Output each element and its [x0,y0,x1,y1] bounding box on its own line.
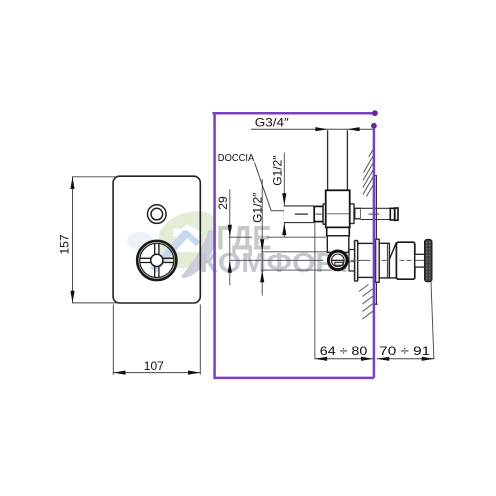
rear main cylinder [396,242,414,279]
wall ring [376,239,380,282]
rear section inner line [386,243,388,278]
centerline dash shower pipe [295,213,308,215]
rear section A [379,243,389,278]
dim G3/4 arrows [315,127,327,131]
shower pipe fitting [314,206,323,221]
DOCCIA leader line [255,163,303,211]
valve body skirt [327,227,350,235]
flange plate [355,241,358,282]
dim G1/2 upper arrows [282,193,286,205]
wall line lower [373,282,378,304]
logo white chimney [174,228,180,237]
link box [349,250,355,272]
right pipe end ring 2 [395,208,398,220]
wheel outer ring [137,241,176,280]
side view [216,116,434,361]
knob center bar [332,259,344,261]
wheel inner ring [140,243,174,277]
centerline dash right pipe [369,213,380,215]
dim G3/4 line [251,128,374,130]
right pipe outline [361,208,391,219]
valve body interior line [326,213,350,215]
svg-text:G3/4″: G3/4″ [255,116,290,130]
watermark logo and text [127,211,354,278]
purple left edge [213,112,216,378]
diverter knob ring [329,251,348,270]
extension line body bottom [229,236,327,238]
svg-text:70 ÷ 91: 70 ÷ 91 [379,344,430,358]
svg-text:157: 157 [57,234,71,254]
diverter neck [327,236,349,253]
wall hatching upper [363,149,374,197]
dim G1/2 upper vertical line [283,153,285,238]
shower pipe fill [284,206,314,223]
purple right edge [373,126,376,378]
wheel spokes [140,244,174,278]
purple dot right edge start [371,123,377,129]
chamfer piece [389,242,396,278]
dim 70-91 arrows [377,357,389,361]
knob notch [335,262,343,265]
dim G1/2 lower vertical line [261,179,263,296]
dim 70-91 extension right slanted [431,282,434,360]
purple top edge [213,112,375,115]
logo roof band left (long) [150,230,191,273]
svg-text:DOCCIA: DOCCIA [218,152,255,164]
wall hatching lower [359,285,373,320]
dim 29 vertical line [229,189,231,285]
logo pale cyan patch left [127,232,153,250]
wall line upper [374,176,376,240]
diverter knob inner circle [332,254,345,267]
DOCCIA leader arrow [302,208,314,213]
valve body [326,190,350,227]
dim 29 arrows [228,225,232,237]
extension line knob bottom [261,269,332,271]
right step [355,208,361,219]
rear stem [415,254,425,267]
logo pale green hill [159,211,216,268]
knurled cap [425,240,432,282]
purple corner dot top [372,110,378,116]
dim 64-80 extension left [314,223,316,360]
button inner circle [151,208,163,220]
extension line knob top [261,251,332,253]
dim G1/2 lower arrows [260,239,264,251]
dim 64-80 arrows [315,357,327,361]
wheel hub [151,254,163,266]
plate outline [113,176,200,303]
dim 70-91 line [377,358,434,360]
centerline dash fitting [316,213,322,215]
shower pipe outline [284,206,314,223]
svg-text:107: 107 [144,359,164,373]
button outer circle [148,205,167,224]
dim 157 arrows [70,177,200,375]
centerline lower assembly [229,259,424,261]
dim 107 extension lines [112,305,114,375]
front view [57,176,200,375]
logo roof band right [183,230,200,247]
purple bottom edge [213,377,374,380]
dim 107 arrows [113,371,125,375]
lower body cylinder [358,243,376,277]
link box interior line [349,261,355,263]
dim 157 line [72,177,74,303]
right pipe fill [361,208,391,219]
svg-text:64 ÷ 80: 64 ÷ 80 [320,344,368,358]
shower pipe boss [323,204,326,224]
svg-text:29: 29 [216,196,230,210]
svg-text:G1/2″: G1/2″ [251,192,265,223]
dim 107 line [113,372,200,374]
right pipe end ring 1 [390,208,394,220]
dim 64-80 line [315,358,373,360]
top pipe G3/4 [328,130,348,190]
svg-text:G1/2″: G1/2″ [270,155,284,186]
logo lavender swoosh [181,230,216,278]
dim 157 extension lines [72,177,200,375]
logo pale cyan sky under house [158,241,189,260]
right boss [350,204,354,224]
purple highlight rectangle [213,110,377,378]
logo white house silhouette [171,225,203,253]
knurled cap texture [427,242,430,281]
